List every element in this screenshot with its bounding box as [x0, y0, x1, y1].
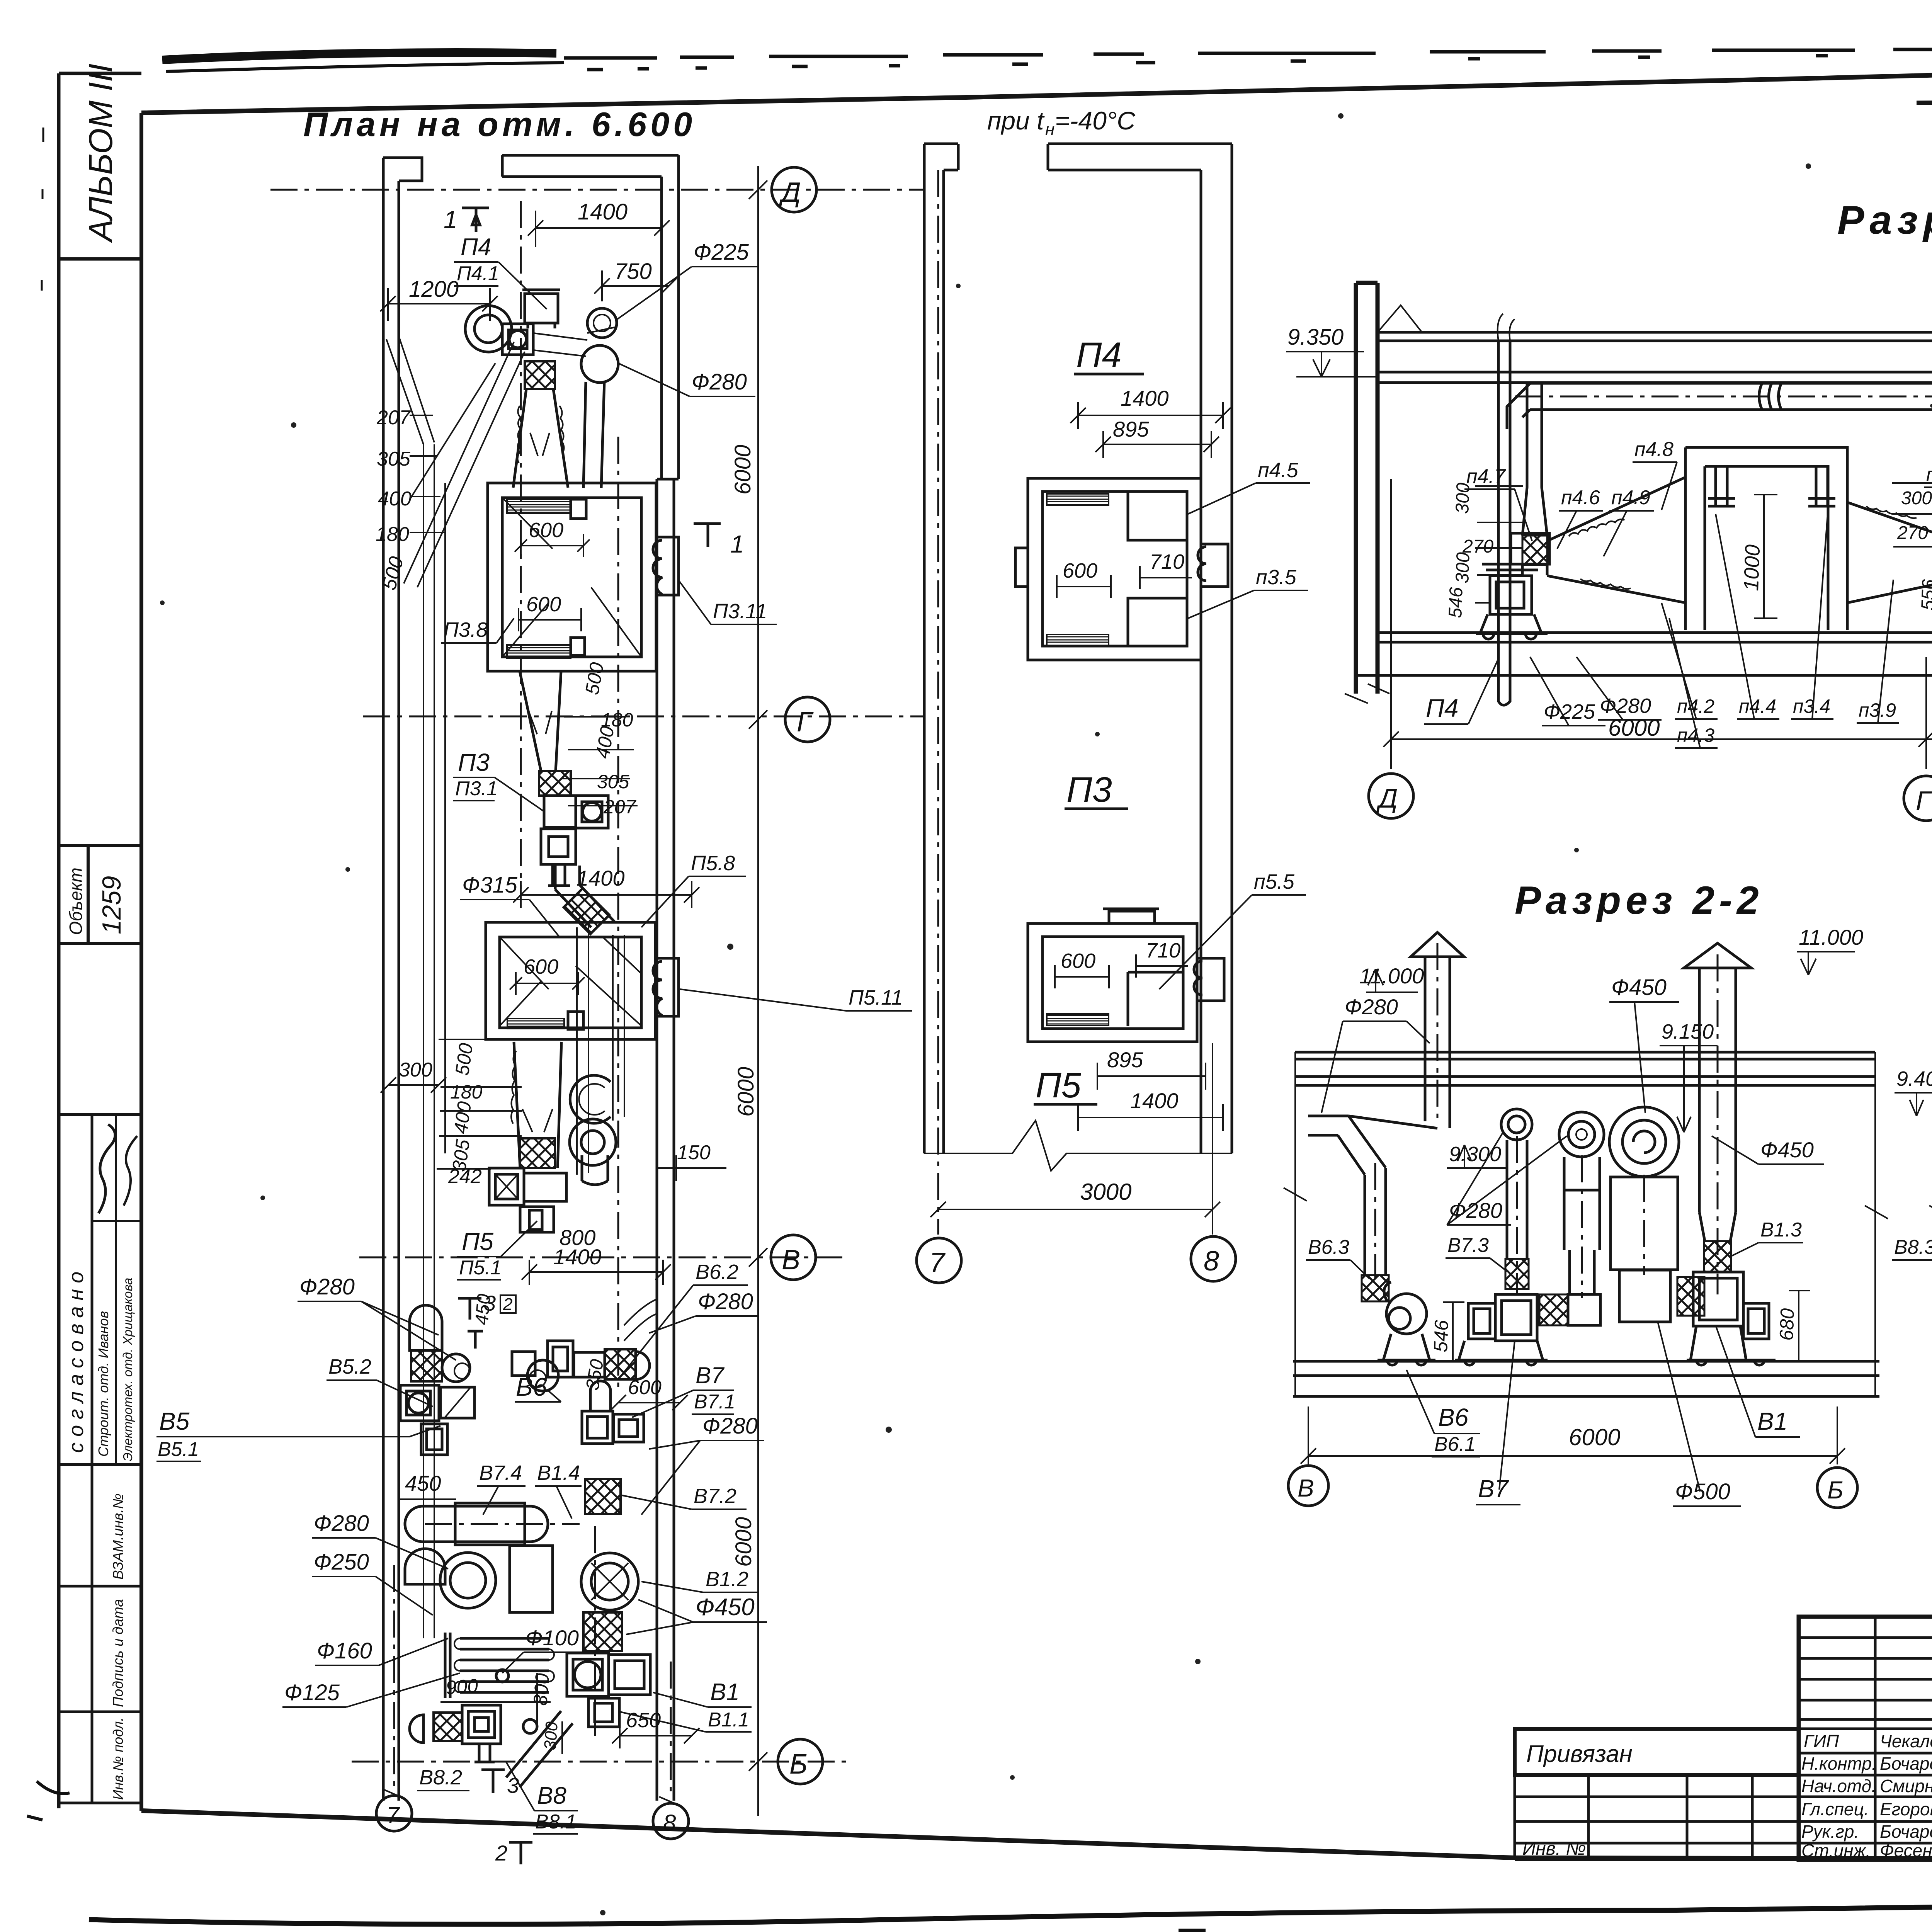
svg-text:600: 600 — [1063, 559, 1097, 582]
svg-text:400: 400 — [378, 488, 412, 510]
chamber 2 inner — [500, 937, 641, 1028]
svg-text:В1.2: В1.2 — [706, 1568, 748, 1591]
plan view (left) — [156, 105, 923, 1865]
svg-text:680: 680 — [1776, 1308, 1798, 1341]
svg-text:Разрез 1-1: Разрез 1-1 — [1837, 198, 1932, 243]
svg-text:6000: 6000 — [1569, 1424, 1620, 1450]
axis circle Г — [785, 697, 830, 742]
left boundary — [1284, 1052, 1307, 1396]
svg-text:400: 400 — [449, 1100, 475, 1135]
chimney 2 — [1699, 968, 1736, 1212]
cylinder below — [582, 1155, 608, 1185]
left elbow of duct — [1507, 383, 1530, 429]
svg-text:8: 8 — [1204, 1246, 1219, 1277]
svg-text:450: 450 — [405, 1471, 441, 1495]
svg-text:В7.2: В7.2 — [694, 1485, 736, 1508]
central round elbow — [1559, 1112, 1604, 1157]
grille strips in П4 box — [1047, 494, 1109, 505]
chamber 1 outer — [488, 483, 656, 671]
В6 curved duct to wall — [624, 1299, 657, 1341]
svg-text:300: 300 — [399, 1059, 432, 1081]
svg-text:В7: В7 — [1478, 1475, 1509, 1503]
bottom scan rough line — [89, 1899, 1932, 1924]
duct risers — [423, 444, 434, 1638]
section mark 1 right — [694, 524, 721, 547]
Ф450 big box — [1611, 1177, 1678, 1270]
svg-text:1: 1 — [730, 530, 744, 558]
left wall of plan bay — [383, 158, 422, 1801]
П4 fan square — [502, 324, 533, 355]
П5 funnel below chamber2 — [514, 1042, 561, 1168]
door frame 1 — [1685, 447, 1847, 630]
sidebar right line = frame left — [91, 1114, 94, 1803]
svg-text:Электротех. отд. Хрищакова: Электротех. отд. Хрищакова — [121, 1278, 135, 1461]
svg-text:Д: Д — [779, 177, 801, 208]
В8 cluster — [434, 1713, 462, 1741]
svg-text:600: 600 — [524, 955, 558, 978]
section mark 3 bottom — [481, 1770, 505, 1793]
grille bump right wall chamber1 — [653, 537, 679, 595]
signatures — [99, 1124, 115, 1213]
chamber 1 inner — [502, 498, 641, 657]
right boundary — [1865, 1052, 1888, 1396]
п3.5 compartment — [1128, 598, 1187, 646]
left paper edge ticks — [42, 128, 43, 291]
П4 motor block — [525, 294, 558, 323]
В5 cluster at left wall — [410, 1305, 442, 1350]
svg-text:Гл.спец.: Гл.спец. — [1801, 1799, 1869, 1819]
ceiling slab — [1295, 1052, 1875, 1085]
svg-text:=-40°С: =-40°С — [1055, 106, 1136, 135]
axis dashdot verticals — [937, 170, 939, 1235]
axis Г dashdot — [363, 716, 923, 718]
svg-text:Рук.гр.: Рук.гр. — [1801, 1821, 1859, 1842]
svg-text:п3.4: п3.4 — [1793, 696, 1830, 717]
П4 risers from ceiling — [1498, 341, 1542, 676]
axis В dashdot — [359, 1257, 846, 1259]
В7.2 hatch — [585, 1479, 621, 1514]
svg-text:Б: Б — [789, 1749, 808, 1780]
svg-text:П3: П3 — [458, 748, 490, 776]
svg-text:450: 450 — [471, 1293, 495, 1326]
svg-text:600: 600 — [526, 593, 561, 616]
В7.3 hatch — [1505, 1259, 1529, 1289]
svg-text:6000: 6000 — [733, 1067, 759, 1117]
П3 flex hatch — [539, 771, 571, 796]
svg-text:В1.3: В1.3 — [1760, 1219, 1802, 1241]
svg-text:н: н — [1045, 120, 1054, 139]
svg-text:Ф280: Ф280 — [698, 1289, 753, 1314]
privyazan box — [1515, 1729, 1799, 1775]
svg-text:Ф280: Ф280 — [1345, 995, 1398, 1019]
section 2-2 — [1284, 878, 1932, 1508]
axis 7 dashdot vertical — [393, 1565, 395, 1789]
chimney 1 — [1425, 957, 1450, 1128]
axis circle Д — [772, 167, 816, 212]
В1 fan — [1693, 1272, 1743, 1326]
axis dashdot center of bay — [617, 437, 619, 1391]
В1.3 hatch — [1704, 1241, 1731, 1272]
svg-text:650: 650 — [626, 1709, 661, 1732]
svg-text:В8.2: В8.2 — [419, 1766, 462, 1789]
svg-text:1400: 1400 — [578, 199, 628, 224]
О-duct below collector — [405, 1549, 445, 1584]
svg-text:Г: Г — [1916, 786, 1932, 816]
svg-text:Ст.инж.: Ст.инж. — [1801, 1840, 1871, 1861]
В6.3 hatch — [1362, 1275, 1389, 1301]
svg-text:2: 2 — [503, 1295, 512, 1314]
svg-text:1400: 1400 — [1130, 1088, 1179, 1113]
svg-text:В7.1: В7.1 — [694, 1391, 735, 1413]
В7 fan cluster — [582, 1411, 613, 1444]
Ф280 connection circle — [581, 345, 618, 383]
П4 flex connector hatch — [525, 361, 555, 389]
svg-text:п4.2: п4.2 — [1677, 696, 1714, 717]
chamber 1 bottom grille — [507, 645, 571, 658]
45 elbow duct with hatch — [555, 866, 614, 927]
frame left border — [139, 113, 143, 1811]
svg-text:180: 180 — [376, 523, 409, 546]
svg-text:895: 895 — [1107, 1048, 1143, 1072]
chimney2 funnel — [1699, 1212, 1736, 1241]
svg-text:Ф280: Ф280 — [1449, 1198, 1502, 1223]
svg-text:1: 1 — [444, 206, 457, 233]
svg-text:п4.6: п4.6 — [1561, 486, 1600, 509]
svg-text:710: 710 — [1146, 939, 1180, 962]
svg-text:900: 900 — [445, 1675, 479, 1699]
section mark 2 bottom — [509, 1842, 532, 1864]
duct crossing arcs — [1759, 383, 1782, 410]
axis 8 dashdot vertical — [670, 1662, 672, 1797]
left sidebar — [27, 64, 141, 1820]
П4 funnel cone — [1522, 488, 1547, 575]
svg-text:710: 710 — [1150, 550, 1184, 573]
section mark 1 top — [462, 208, 489, 232]
soglasovano block — [59, 1114, 141, 1464]
svg-text:Смирнов: Смирнов — [1880, 1776, 1932, 1796]
section 3-3 — [1929, 874, 1932, 1528]
Ф225 connection circle — [587, 308, 617, 338]
п4.5 compartment — [1128, 492, 1187, 540]
svg-text:В6.3: В6.3 — [1308, 1236, 1349, 1259]
П4 riser hatch — [1522, 536, 1547, 565]
svg-text:Ф500: Ф500 — [1675, 1479, 1730, 1504]
svg-text:Бочарова: Бочарова — [1880, 1821, 1932, 1842]
axis circle Д sec — [1369, 774, 1413, 818]
В7 fan — [1495, 1294, 1537, 1341]
svg-text:Д: Д — [1376, 783, 1398, 813]
frame bottom border — [141, 1811, 1932, 1860]
svg-text:300: 300 — [541, 1721, 561, 1751]
svg-text:Ф225: Ф225 — [694, 240, 749, 265]
svg-text:В7.4: В7.4 — [479, 1461, 522, 1485]
svg-text:В5.2: В5.2 — [328, 1355, 371, 1378]
svg-text:В6.1: В6.1 — [1434, 1433, 1476, 1456]
axis circle В — [1288, 1466, 1328, 1506]
svg-text:3: 3 — [507, 1773, 519, 1798]
svg-text:9.300: 9.300 — [1449, 1143, 1501, 1166]
В8 diagonal duct — [506, 1711, 573, 1787]
flex transition door to П3 — [1847, 502, 1932, 603]
svg-text:6000: 6000 — [1608, 715, 1660, 741]
svg-text:П3: П3 — [1066, 770, 1112, 810]
dim line 6000 a — [1383, 479, 1932, 769]
ceiling slab — [1378, 332, 1932, 341]
svg-text:В6.2: В6.2 — [696, 1260, 738, 1284]
svg-text:895: 895 — [1113, 417, 1149, 441]
svg-text:300: 300 — [1901, 488, 1932, 509]
svg-text:П5: П5 — [462, 1228, 493, 1255]
svg-text:Н.контр.: Н.контр. — [1801, 1753, 1877, 1774]
coil heat exchanger — [460, 1638, 549, 1692]
svg-text:ВЗАМ.инв.№: ВЗАМ.инв.№ — [110, 1493, 126, 1580]
svg-text:7: 7 — [929, 1247, 946, 1278]
svg-text:п4.9: п4.9 — [1611, 486, 1650, 509]
П3 fan block — [544, 796, 576, 827]
left Z duct — [1308, 1116, 1437, 1135]
В1 fan block — [567, 1653, 609, 1696]
top wall right part — [502, 155, 679, 177]
Ф450 spiral fan — [1609, 1107, 1679, 1177]
svg-text:П5.1: П5.1 — [459, 1257, 502, 1279]
big elbow circle 1 — [440, 1553, 496, 1608]
grille bump right wall chamber2 — [653, 958, 679, 1016]
svg-text:Бочарова: Бочарова — [1880, 1753, 1932, 1774]
П4 detail box — [1028, 478, 1201, 660]
svg-text:800: 800 — [529, 1672, 553, 1706]
middle signature table — [1799, 1617, 1932, 1860]
svg-text:9.150: 9.150 — [1662, 1020, 1714, 1043]
svg-text:п4.7: п4.7 — [1466, 465, 1506, 488]
svg-text:Ф450: Ф450 — [696, 1594, 755, 1621]
svg-text:1400: 1400 — [577, 866, 625, 890]
svg-text:В8.3: В8.3 — [1894, 1236, 1932, 1259]
object cell — [59, 845, 141, 944]
svg-text:П3.11: П3.11 — [713, 600, 767, 623]
central hatch — [1539, 1294, 1568, 1325]
П4 funnel — [513, 389, 568, 488]
П4 elbow circle — [465, 306, 512, 352]
extension line right — [757, 166, 759, 1816]
floor slab — [1293, 1361, 1879, 1396]
svg-text:1000: 1000 — [1740, 544, 1764, 591]
top scan edge band — [162, 46, 1932, 71]
svg-text:Фесенко: Фесенко — [1880, 1840, 1932, 1861]
middle detail column — [917, 106, 1310, 1283]
right wall of shaft — [1201, 144, 1232, 1153]
axis Д dashdot — [270, 189, 923, 191]
svg-text:750: 750 — [614, 259, 652, 284]
svg-text:546: 546 — [1445, 587, 1467, 618]
svg-text:180: 180 — [450, 1081, 483, 1103]
left boundary — [1929, 1052, 1932, 1395]
svg-text:П5.11: П5.11 — [849, 986, 903, 1009]
svg-text:Ф225: Ф225 — [1544, 700, 1595, 723]
svg-text:В1.4: В1.4 — [537, 1461, 580, 1485]
svg-text:6000: 6000 — [731, 1517, 756, 1567]
section 1-1 — [1286, 198, 1932, 821]
svg-text:1259: 1259 — [97, 876, 126, 934]
В1 hatch — [583, 1612, 622, 1651]
svg-text:Г: Г — [797, 707, 814, 738]
В7 duct vent circle — [1501, 1109, 1532, 1140]
svg-text:Ф250: Ф250 — [314, 1549, 369, 1575]
axis circle Г sec — [1904, 776, 1932, 821]
svg-text:6000: 6000 — [730, 445, 755, 495]
svg-text:п4.5: п4.5 — [1258, 459, 1299, 482]
svg-text:П4: П4 — [1426, 694, 1459, 722]
П4 fan unit — [1490, 576, 1532, 614]
Ф100 open circle — [570, 1075, 611, 1123]
axis Б dashdot — [352, 1761, 846, 1763]
svg-text:В7: В7 — [696, 1362, 725, 1388]
svg-text:600: 600 — [628, 1376, 662, 1399]
axis circle Б — [1817, 1468, 1857, 1508]
axis circle В — [771, 1235, 816, 1280]
svg-text:В5: В5 — [159, 1407, 190, 1435]
П5 fan block — [489, 1168, 524, 1205]
bottom break line — [924, 1121, 1232, 1171]
П5 flex hatch — [520, 1138, 555, 1168]
flex transition П4 to door — [1547, 477, 1685, 603]
svg-text:7: 7 — [386, 1802, 400, 1828]
svg-text:Привязан: Привязан — [1526, 1741, 1633, 1767]
svg-text:В1.1: В1.1 — [708, 1709, 749, 1731]
line under 20 box extending left — [1917, 100, 1932, 103]
svg-text:В1: В1 — [710, 1679, 740, 1706]
central column duct — [1564, 1157, 1600, 1294]
svg-text:Ф280: Ф280 — [702, 1413, 758, 1439]
svg-text:Инв. №: Инв. № — [1522, 1838, 1586, 1859]
svg-text:П4: П4 — [461, 234, 491, 260]
chamber 2 bottom grille — [507, 1019, 564, 1029]
svg-text:План на отм. 6.600: План на отм. 6.600 — [303, 105, 696, 143]
svg-text:П5: П5 — [1036, 1066, 1082, 1105]
right wall lower — [657, 479, 679, 1801]
risers below floor — [1498, 642, 1932, 705]
svg-text:В: В — [782, 1245, 800, 1276]
svg-text:Ф125: Ф125 — [284, 1680, 340, 1705]
svg-text:500: 500 — [451, 1042, 477, 1077]
svg-text:п3.10: п3.10 — [1926, 464, 1932, 485]
svg-text:с о г л а с о в а н о: с о г л а с о в а н о — [65, 1272, 88, 1453]
floor slab — [1378, 633, 1932, 642]
svg-text:п4.4: п4.4 — [1739, 696, 1776, 717]
svg-text:305: 305 — [597, 771, 629, 793]
svg-text:п5.5: п5.5 — [1254, 870, 1295, 893]
grille bump right wall П4 — [1198, 544, 1228, 587]
svg-text:В6: В6 — [1438, 1403, 1469, 1431]
svg-text:П4: П4 — [1076, 335, 1122, 375]
svg-text:2: 2 — [495, 1841, 507, 1865]
svg-text:270: 270 — [1897, 523, 1928, 543]
svg-text:Подпись и дата: Подпись и дата — [110, 1599, 126, 1707]
svg-text:1400: 1400 — [1121, 386, 1169, 410]
svg-text:Ф280: Ф280 — [299, 1274, 355, 1299]
П4 discharge duct — [533, 327, 617, 356]
album cell — [59, 73, 141, 259]
Ф315 circle — [570, 1119, 616, 1165]
П5 detail box — [1028, 923, 1197, 1042]
podpis cell — [59, 1711, 141, 1713]
svg-text:Разрез 2-2: Разрез 2-2 — [1515, 878, 1764, 922]
Ф450 lower box and hatch — [1619, 1270, 1670, 1322]
svg-text:АЛЬБОМ III: АЛЬБОМ III — [82, 64, 119, 244]
svg-text:Нач.отд.: Нач.отд. — [1801, 1776, 1876, 1796]
title block — [1515, 1614, 1932, 1861]
left wall column — [1356, 283, 1378, 694]
svg-text:п3.9: п3.9 — [1859, 699, 1896, 721]
svg-text:1200: 1200 — [409, 277, 459, 302]
svg-text:Строит. отд. Иванов: Строит. отд. Иванов — [95, 1311, 111, 1457]
svg-text:ГИП: ГИП — [1804, 1731, 1839, 1751]
axis circle Б — [778, 1739, 823, 1784]
chamber 1 top grille — [507, 499, 571, 513]
chamber 2 braces — [500, 937, 641, 1026]
svg-text:9.400: 9.400 — [1896, 1067, 1932, 1090]
grille bump right wall П5 — [1194, 958, 1224, 1001]
frame top border — [141, 59, 1932, 113]
collector rounded duct — [405, 1506, 548, 1542]
svg-text:3000: 3000 — [1080, 1179, 1131, 1205]
svg-text:9.350: 9.350 — [1287, 325, 1344, 350]
svg-text:305: 305 — [377, 448, 411, 470]
svg-text:546: 546 — [1430, 1320, 1452, 1353]
chamber 1 braces — [502, 498, 641, 657]
svg-text:11.000: 11.000 — [1799, 925, 1863, 949]
svg-text:В8: В8 — [537, 1782, 566, 1809]
svg-text:150: 150 — [677, 1141, 711, 1164]
riser feed diagonal — [386, 336, 434, 444]
svg-text:300: 300 — [1452, 552, 1474, 583]
svg-text:Б: Б — [1827, 1476, 1844, 1504]
small grid under privyazan — [1515, 1775, 1752, 1860]
svg-text:п3.5: п3.5 — [1256, 566, 1297, 589]
П3 funnel below chamber1 — [520, 671, 561, 771]
svg-text:Ф450: Ф450 — [1611, 975, 1667, 1000]
svg-text:242: 242 — [448, 1165, 482, 1188]
svg-text:Объект: Объект — [66, 867, 86, 935]
hanger brackets — [1708, 466, 1735, 506]
svg-text:556: 556 — [1918, 579, 1932, 611]
section mark 3 — [458, 1298, 483, 1349]
top wall of shaft — [1048, 144, 1232, 170]
svg-text:при t: при t — [987, 106, 1045, 135]
right wall upper — [662, 155, 679, 479]
П5 top cap — [1109, 911, 1155, 923]
svg-text:Ф450: Ф450 — [1760, 1138, 1814, 1162]
vzam inv cell — [59, 1585, 141, 1588]
svg-text:Ф280: Ф280 — [314, 1511, 369, 1536]
horizontal duct under ceiling — [1530, 383, 1932, 410]
svg-text:Егорова: Егорова — [1880, 1799, 1932, 1819]
svg-text:600: 600 — [529, 519, 563, 542]
damper on left wall of П4 box — [1015, 548, 1028, 587]
В7 duct — [1507, 1140, 1527, 1259]
svg-text:207: 207 — [376, 406, 411, 429]
chamber 2 outer — [486, 922, 655, 1039]
axis circle 7 — [917, 1238, 961, 1283]
svg-text:Ф315: Ф315 — [462, 872, 518, 898]
svg-text:Ф160: Ф160 — [317, 1638, 372, 1663]
svg-text:В8.1: В8.1 — [535, 1811, 577, 1833]
svg-text:п4.8: п4.8 — [1634, 438, 1673, 461]
svg-text:Чекалов: Чекалов — [1880, 1731, 1932, 1751]
inv cell — [59, 1802, 141, 1804]
axis circle 8 — [1191, 1236, 1236, 1281]
svg-text:8: 8 — [663, 1810, 676, 1836]
svg-text:В: В — [1298, 1474, 1314, 1502]
